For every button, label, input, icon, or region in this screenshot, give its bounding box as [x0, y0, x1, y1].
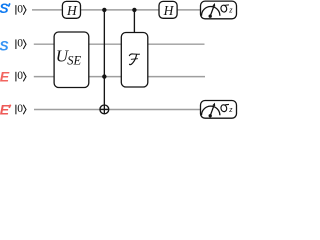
svg-text:S: S — [0, 38, 9, 54]
label S' — [0, 0, 10, 16]
gate H (first) — [62, 1, 80, 18]
wire S' (qubit 1) — [32, 9, 202, 11]
control line (Toffoli vertical) — [103, 10, 105, 114]
CNOT target on E' — [100, 105, 109, 114]
control dot on E for Toffoli — [102, 74, 106, 78]
label E' — [0, 102, 11, 118]
svg-text:E: E — [0, 102, 10, 118]
measurement box bottom (meter + sigma_z) — [201, 101, 237, 119]
wire E' (qubit 4) — [34, 109, 202, 111]
svg-text:S: S — [0, 0, 9, 16]
svg-text:SE: SE — [67, 53, 81, 67]
svg-text:0: 0 — [17, 70, 23, 82]
svg-text:H: H — [163, 3, 175, 18]
svg-text:0: 0 — [17, 103, 23, 115]
ket |0> row 4 — [16, 103, 26, 115]
control dot on S' for Toffoli — [102, 8, 106, 12]
svg-text:0: 0 — [17, 3, 23, 15]
svg-text:z: z — [228, 104, 233, 114]
svg-text:E: E — [0, 69, 10, 85]
control line (to F box) — [133, 10, 135, 33]
svg-text:0: 0 — [17, 38, 23, 50]
gate U_SE (two-qubit box) — [54, 32, 89, 88]
ket |0> row 2 — [16, 38, 26, 50]
wire E (qubit 3) — [34, 76, 205, 78]
measurement box top (meter + sigma_z) — [201, 1, 237, 19]
ket |0> row 3 — [16, 70, 26, 82]
ket |0> row 1 — [16, 3, 26, 15]
gate H (second) — [159, 1, 177, 18]
wire S (qubit 2) — [34, 43, 205, 45]
svg-text:z: z — [228, 5, 233, 15]
script F glyph — [129, 54, 140, 56]
control dot on S' for F — [132, 8, 136, 12]
gate F (controlled box) — [121, 33, 148, 88]
svg-text:H: H — [66, 3, 78, 18]
